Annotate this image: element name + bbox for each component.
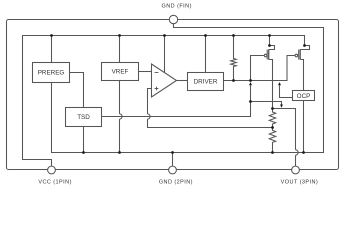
svg-text:TSD: TSD (77, 114, 90, 121)
wire op-amp plus input down with hop, right to divider tap (148, 89, 273, 128)
box DRIVER (188, 73, 224, 91)
box PREREG (33, 63, 70, 83)
wire op-amp top stub (164, 36, 166, 73)
svg-text:VREF: VREF (112, 69, 129, 76)
svg-text:GND (2PIN): GND (2PIN) (159, 179, 193, 185)
node dots PMOS sources (268, 44, 271, 47)
hop plus-input over TSD line (148, 114, 151, 119)
svg-text:VOUT (3PIN): VOUT (3PIN) (281, 179, 319, 185)
wire left PMOS drain down through gate line to VOUT node (269, 60, 273, 109)
pin GND(2PIN) circle (169, 166, 177, 174)
svg-text:DRIVER: DRIVER (194, 79, 218, 86)
wire left PMOS supply stub (269, 36, 271, 46)
transistor Q2 right PMOS source hook (300, 46, 309, 50)
transistor Q1 gate bar (266, 50, 268, 60)
op-amp plus symbol (155, 87, 159, 91)
svg-text:VCC (1PIN): VCC (1PIN) (38, 179, 72, 185)
pin VCC(1PIN) circle (48, 166, 56, 174)
wire Q2 drain to OCP top (300, 60, 303, 91)
arrow TSD to gate line (249, 82, 252, 85)
box TSD (66, 108, 102, 127)
box OCP (293, 91, 315, 101)
resistor R2 feedback bottom (269, 128, 275, 153)
hop VOUT drop over GND bus (296, 150, 299, 155)
wire gate line DRIVER out to right PMOS gate (224, 56, 296, 81)
arrow OCP to gate line (278, 82, 281, 85)
arrow TSD branch to VOUT line (280, 105, 283, 108)
transistor Q1 gate bubble (264, 54, 267, 57)
resistor R1 feedback top (269, 109, 275, 128)
transistor Q1 channel bar (268, 50, 270, 60)
wire TSD bottom stub (83, 127, 85, 153)
op-amp minus symbol (155, 72, 159, 74)
wire DRIVER top stub (205, 36, 207, 73)
pin GND(FIN) circle (169, 15, 177, 23)
transistor Q1 left PMOS source hook (269, 46, 275, 50)
box VREF (102, 63, 139, 81)
svg-text:PREREG: PREREG (38, 70, 65, 77)
wire OCP input/output to gate line arrow (280, 85, 293, 97)
node dots gate line (232, 79, 235, 82)
wire VOUT node to pin with hop over GND bus (273, 109, 296, 167)
wire PREREG top stub (51, 36, 53, 63)
node dots GND bus (82, 151, 85, 154)
node dot TSD branch (249, 100, 252, 103)
op-amp U1 error amplifier (152, 64, 177, 97)
wire op-amp out to DRIVER (177, 80, 188, 82)
svg-text:GND (FIN): GND (FIN) (162, 3, 192, 9)
transistor Q2 channel bar (299, 50, 301, 60)
hop VREF-GND over TSD line (120, 114, 123, 119)
node dots divider (271, 107, 274, 110)
wire VREF bottom with hop over TSD line (119, 81, 121, 153)
wire OCP bottom stub (303, 101, 305, 153)
wire TSD branch to VOUT line arrow (251, 102, 282, 105)
wire GND(FIN) net: drop, across, down right side, bus to left, up to PREREG bottom (52, 24, 324, 153)
wire GND 2PIN stub (172, 153, 174, 167)
transistor Q2 gate bubble (295, 54, 298, 57)
node dots VCC bus (50, 34, 53, 37)
resistor R3 pull-up at gate (231, 36, 237, 81)
wire left PMOS gate drop (251, 56, 265, 81)
wire PREREG out to TSD top (70, 73, 84, 108)
wire VREF top stub (119, 36, 121, 63)
IC outline (7, 20, 339, 170)
svg-text:OCP: OCP (297, 93, 311, 100)
pin VOUT(3PIN) circle (292, 166, 300, 174)
transistor Q2 gate bar (298, 50, 300, 60)
wire VCC net: pin up, left, up left side, across top bus, down to right PMOS source (23, 36, 305, 167)
wire VREF out to op-amp minus (139, 71, 152, 73)
wire TSD output to gate line arrow (102, 85, 251, 116)
